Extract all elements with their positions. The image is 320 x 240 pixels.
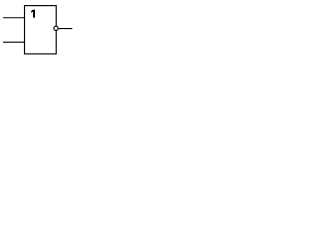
wire output (59, 28, 73, 30)
wire input top (3, 17, 25, 19)
gate body U1 (IEC rectangle) (25, 6, 57, 54)
wire input bottom (3, 41, 25, 43)
inversion bubble (54, 26, 58, 30)
label 1 (31, 10, 35, 18)
